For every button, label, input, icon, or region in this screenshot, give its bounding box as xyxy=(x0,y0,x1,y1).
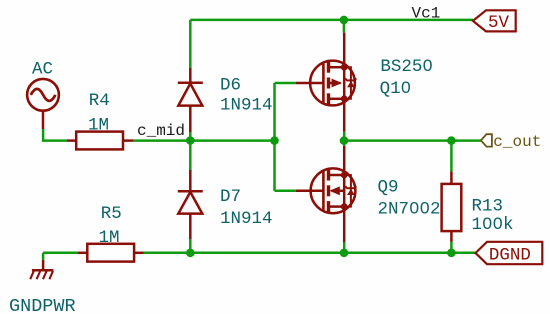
resistor R4 xyxy=(67,132,133,150)
hierarchical label c_out xyxy=(481,134,492,146)
svg-text:D7: D7 xyxy=(220,187,241,207)
svg-text:BS250: BS250 xyxy=(380,57,433,77)
svg-text:1M: 1M xyxy=(88,115,109,135)
wire drain rail to c_out xyxy=(344,139,481,142)
node R13 top junction xyxy=(447,136,456,145)
node Q9 source junction xyxy=(340,249,349,258)
wire D7 anode to bottom rail xyxy=(189,239,192,253)
svg-text:R13: R13 xyxy=(472,196,504,216)
svg-text:R4: R4 xyxy=(89,91,110,111)
wire to Q10 gate xyxy=(275,82,296,85)
resistor R13 xyxy=(442,172,462,242)
power flag 5V xyxy=(473,10,516,31)
svg-text:c_mid: c_mid xyxy=(137,122,185,140)
wire bottom rail xyxy=(144,252,476,255)
wire top rail Vc1/5V xyxy=(190,19,473,22)
node junction top rail at Q10 source xyxy=(340,16,349,25)
wire to Q9 gate xyxy=(275,190,296,193)
wire R13 top xyxy=(450,141,453,172)
svg-text:AC: AC xyxy=(32,59,53,79)
svg-text:Q9: Q9 xyxy=(378,177,399,197)
svg-text:D6: D6 xyxy=(220,75,241,95)
node c_mid junction xyxy=(186,136,195,145)
power flag DGND xyxy=(476,242,543,264)
wire AC to R4 xyxy=(43,129,67,141)
svg-text:1M: 1M xyxy=(99,228,120,248)
wire Q10 drain to c_out rail xyxy=(343,132,346,141)
wire R4 to c_mid xyxy=(133,139,190,142)
resistor R5 xyxy=(78,244,144,262)
svg-text:c_out: c_out xyxy=(493,133,541,151)
node gate bus junction xyxy=(270,136,279,145)
wire Q10/Q9 mid connection from rail xyxy=(343,141,346,146)
node drain junction xyxy=(340,136,349,145)
wire top-left vertical to D6 xyxy=(189,20,192,68)
svg-text:2N7002: 2N7002 xyxy=(378,199,441,219)
wire D6 anode to c_mid xyxy=(189,132,192,141)
node D7 bottom junction xyxy=(186,249,195,258)
wire gate bus vertical xyxy=(273,83,276,191)
wire Q9 source to bottom rail xyxy=(343,242,346,253)
transistor Q9 2N7002 (NMOS) xyxy=(296,146,356,242)
svg-text:R5: R5 xyxy=(101,204,122,224)
svg-text:1N914: 1N914 xyxy=(220,96,273,116)
voltage source AC xyxy=(27,79,59,129)
diode D6 1N914 xyxy=(178,68,203,132)
svg-text:Vc1: Vc1 xyxy=(412,5,441,23)
wire bottom rail left xyxy=(43,252,78,255)
svg-text:DGND: DGND xyxy=(489,245,531,265)
wire c_mid to D7 cathode xyxy=(189,141,192,170)
wire R13 bottom xyxy=(450,242,453,253)
diode D7 1N914 xyxy=(178,170,203,239)
svg-text:5V: 5V xyxy=(488,13,510,33)
ground GNDPWR xyxy=(42,253,45,260)
svg-text:100k: 100k xyxy=(472,215,514,235)
node R13 bottom junction xyxy=(447,249,456,258)
wire c_mid to gate bus xyxy=(190,139,274,142)
transistor Q10 BS250 (PMOS) xyxy=(296,33,356,132)
wire Vc1 rail to Q10 xyxy=(343,20,346,33)
svg-text:GNDPWR: GNDPWR xyxy=(9,296,76,314)
svg-text:1N914: 1N914 xyxy=(220,209,273,229)
